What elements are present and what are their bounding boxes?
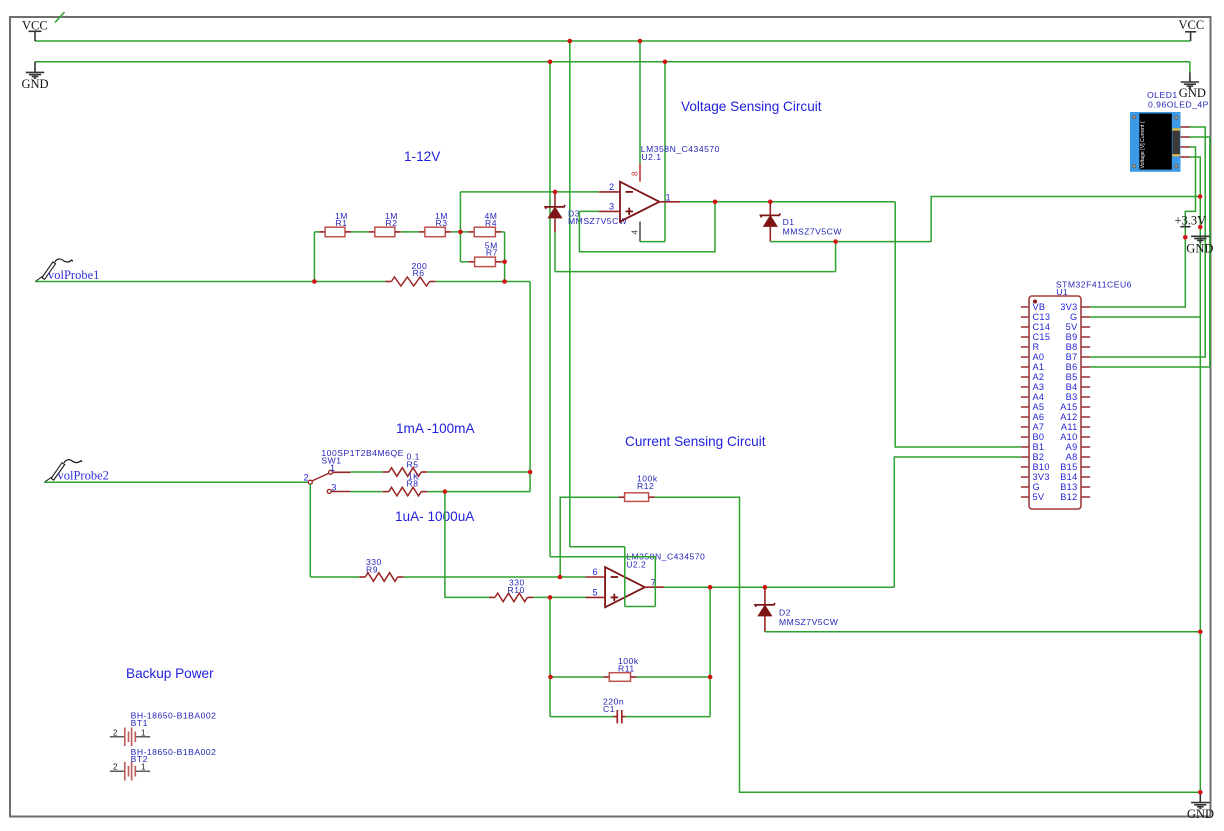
pin 2 stub U2.1 <box>599 191 620 193</box>
svg-text:3V3: 3V3 <box>1060 302 1077 312</box>
wire GND top rail <box>35 61 1190 63</box>
wire GND drop to pin4 net <box>664 62 666 242</box>
node D3 cathode junction <box>553 190 558 195</box>
svg-text:A2: A2 <box>1033 372 1045 382</box>
svg-text:B13: B13 <box>1060 482 1077 492</box>
svg-text:OLED1: OLED1 <box>1147 90 1178 100</box>
pin 3 stub U2.1 <box>599 210 620 212</box>
svg-text:B10: B10 <box>1033 462 1050 472</box>
wire R2-R3 <box>401 231 419 233</box>
pin 8 stub U2.1 <box>639 164 641 182</box>
svg-text:B12: B12 <box>1060 492 1077 502</box>
svg-text:BT1: BT1 <box>131 718 148 728</box>
svg-text:B2: B2 <box>1033 452 1045 462</box>
wire D3 anode drop <box>554 232 556 272</box>
svg-text:B8: B8 <box>1066 342 1078 352</box>
svg-text:3V3: 3V3 <box>1033 472 1050 482</box>
svg-text:1: 1 <box>141 728 146 737</box>
wire OLED pin1 to B7 <box>1090 127 1205 357</box>
wire C1 left lead <box>550 716 615 718</box>
wire C1 right lead <box>626 716 710 718</box>
wire volProbe1 row <box>35 281 314 283</box>
ground GND mid right <box>1186 236 1213 255</box>
svg-text:A0: A0 <box>1033 352 1045 362</box>
node GND flag tap <box>1198 225 1203 230</box>
node R3-R4 junction <box>458 230 463 235</box>
svg-text:R2: R2 <box>386 218 398 228</box>
wire R1 left lead <box>314 231 319 233</box>
resistor R2 1M <box>369 211 401 237</box>
capacitor C1 220n <box>603 697 626 724</box>
svg-text:2: 2 <box>113 763 118 772</box>
svg-text:R7: R7 <box>486 247 498 257</box>
wire pin3 lead <box>579 210 599 212</box>
node R11 left junction <box>548 675 553 680</box>
resistor R6 200 <box>314 261 435 286</box>
resistor R5 0.1 <box>383 452 427 477</box>
pin 1 stub U2.1 output <box>659 201 680 203</box>
svg-text:A6: A6 <box>1033 412 1045 422</box>
wire pin5 node drop <box>549 597 551 716</box>
svg-text:VCC: VCC <box>1179 18 1205 32</box>
wire D1 anode run <box>770 241 931 243</box>
node 3V3 flag tap <box>1183 235 1188 240</box>
node pin5 R10 junction <box>548 595 553 600</box>
wire R5 right to node <box>427 471 530 473</box>
svg-text:GND: GND <box>22 77 49 91</box>
wire D3 anode run right <box>555 271 836 273</box>
wire R8 tap drop to R10 <box>445 492 489 598</box>
resistor R4 4M <box>468 211 501 237</box>
svg-text:A8: A8 <box>1066 452 1078 462</box>
wire volProbe1 drop <box>529 282 531 492</box>
svg-text:5V: 5V <box>1033 492 1045 502</box>
wire R8 right to node <box>427 491 530 493</box>
node R11 right junction <box>708 675 713 680</box>
node R8 R10 tap <box>443 489 448 494</box>
wire R12 left lead <box>560 497 618 577</box>
svg-text:G: G <box>1070 312 1077 322</box>
node VCC pin8 tap <box>638 39 643 44</box>
svg-text:R1: R1 <box>336 218 348 228</box>
svg-text:R5: R5 <box>407 459 419 469</box>
ground GND bottom right <box>1187 792 1214 821</box>
svg-text:B6: B6 <box>1066 362 1078 372</box>
display OLED1 0.96OLED_4P <box>1130 90 1209 172</box>
svg-text:1: 1 <box>666 192 671 202</box>
diode D1 MMSZ7V5CW zener <box>761 202 843 242</box>
node R5 right junction <box>528 470 533 475</box>
wire node A to pin2 run <box>460 191 599 193</box>
svg-text:B14: B14 <box>1060 472 1077 482</box>
battery BT2 BH-18650-B1BA002 <box>110 747 217 781</box>
svg-text:A4: A4 <box>1033 392 1045 402</box>
svg-text:1: 1 <box>330 463 335 473</box>
wire volProbe2 row <box>44 481 308 483</box>
svg-text:R8: R8 <box>407 479 419 489</box>
svg-text:GND: GND <box>1179 86 1206 100</box>
svg-text:B9: B9 <box>1066 332 1078 342</box>
svg-text:R4: R4 <box>485 218 497 228</box>
svg-text:3: 3 <box>609 202 614 212</box>
node GND drop tap <box>548 60 553 65</box>
resistor R11 100k <box>603 656 639 681</box>
svg-text:D1: D1 <box>783 217 795 227</box>
svg-text:Voltage [V] Current (: Voltage [V] Current ( <box>1140 121 1146 168</box>
svg-text:C14: C14 <box>1033 322 1051 332</box>
svg-text:R12: R12 <box>637 481 654 491</box>
svg-text:U2.2: U2.2 <box>626 560 646 570</box>
wire volProbe1 row right of R6 <box>436 281 530 283</box>
svg-text:MMSZ7V5CW: MMSZ7V5CW <box>783 227 843 237</box>
resistor R3 1M <box>419 211 451 237</box>
node U2.1 feedback tap <box>713 200 718 205</box>
display OLED1 pin stubs <box>1181 127 1190 157</box>
wire R4-R7 right drop <box>504 232 506 282</box>
wire SW1 pin1 to R5 <box>351 471 383 473</box>
svg-text:1: 1 <box>141 763 146 772</box>
wire R7 left lead <box>460 261 468 263</box>
svg-text:1uA- 1000uA: 1uA- 1000uA <box>395 509 475 524</box>
wire R11 right lead <box>637 676 711 678</box>
battery BT1 BH-18650-B1BA002 <box>110 711 217 747</box>
node D1 cathode junction <box>768 200 773 205</box>
svg-text:A10: A10 <box>1060 432 1077 442</box>
wire rail loop V2 <box>654 557 656 607</box>
svg-text:R10: R10 <box>508 585 525 595</box>
svg-text:B0: B0 <box>1033 432 1045 442</box>
node pin6 R12 junction <box>558 575 563 580</box>
mcu U1 STM32F411CEU6 <box>1029 279 1132 509</box>
wire pin4 to GND net <box>640 241 665 243</box>
wire SW1 pin3 to R8 <box>351 491 383 493</box>
svg-text:R: R <box>1033 342 1040 352</box>
wire common to R9 <box>310 576 359 578</box>
resistor R9 330 <box>359 557 403 581</box>
svg-text:A3: A3 <box>1033 382 1045 392</box>
wire rail loop V1 <box>624 547 626 607</box>
resistor R10 330 <box>489 578 533 602</box>
svg-text:C1: C1 <box>603 704 615 714</box>
node D2 cathode junction <box>763 585 768 590</box>
power flag VCC left <box>22 19 48 42</box>
mcu U1 left pin names <box>1033 302 1051 502</box>
svg-text:VB: VB <box>1033 302 1046 312</box>
svg-text:U2.1: U2.1 <box>641 152 661 162</box>
wire U2.2 output run <box>664 586 894 588</box>
wire OLED pin2 to B6 <box>1090 137 1210 367</box>
wire R3-R4 node <box>451 231 468 233</box>
svg-text:MMSZ7V5CW: MMSZ7V5CW <box>568 216 628 226</box>
ground GND left <box>22 62 49 91</box>
svg-text:8: 8 <box>631 171 640 176</box>
svg-text:5: 5 <box>593 588 598 598</box>
wire VCC drop to pin8 net <box>639 41 641 164</box>
wire feedback drop U2.1 <box>579 202 715 252</box>
svg-text:0.96OLED_4P: 0.96OLED_4P <box>1148 100 1209 110</box>
resistor R12 100k <box>619 474 658 502</box>
wire green slash mark <box>55 12 65 23</box>
svg-text:G: G <box>1033 482 1040 492</box>
node volProbe1 R4 junction <box>502 279 507 284</box>
wire D1 anode riser <box>931 197 1200 242</box>
svg-text:C13: C13 <box>1033 312 1051 322</box>
node GND pin4 tap <box>663 60 668 65</box>
wire U2.1 output run <box>680 201 895 203</box>
svg-text:A1: A1 <box>1033 362 1045 372</box>
svg-text:A11: A11 <box>1061 422 1078 432</box>
wire R12 right to GND run <box>655 497 1201 792</box>
svg-text:B3: B3 <box>1066 392 1078 402</box>
wire rail loop H1 <box>570 546 625 548</box>
node volProbe1 R1 junction <box>312 279 317 284</box>
wire output drop to B1 <box>895 202 1021 447</box>
ground GND right top <box>1179 62 1206 100</box>
node R7 right junction <box>502 260 507 265</box>
svg-text:A5: A5 <box>1033 402 1045 412</box>
svg-text:1-12V: 1-12V <box>404 149 440 164</box>
svg-text:A15: A15 <box>1060 402 1077 412</box>
wire G pin run <box>1090 316 1200 318</box>
svg-text:Voltage Sensing Circuit: Voltage Sensing Circuit <box>681 99 822 114</box>
wire D2 anode run to GND <box>765 631 1200 633</box>
pin 6 stub U2.2 <box>586 576 606 578</box>
svg-text:C15: C15 <box>1033 332 1051 342</box>
pin 4 stub U2.1 <box>639 222 641 242</box>
svg-text:VCC: VCC <box>22 19 48 33</box>
wire R11 left lead <box>551 676 604 678</box>
mcu U1 left pin stubs <box>1021 307 1029 497</box>
wire node A drop to R7 <box>459 192 461 262</box>
resistor R7 5M <box>469 241 502 267</box>
node D2 anode GND tap <box>1198 630 1203 635</box>
svg-text:Backup Power: Backup Power <box>126 666 214 681</box>
wire rail loop H2 <box>550 556 655 558</box>
diode D2 MMSZ7V5CW zener <box>755 587 839 632</box>
svg-text:A9: A9 <box>1066 442 1078 452</box>
wire VCC top rail <box>35 40 1191 42</box>
resistor R8 1K <box>383 472 427 496</box>
svg-text:R6: R6 <box>413 268 425 278</box>
svg-text:B5: B5 <box>1066 372 1078 382</box>
svg-text:GND: GND <box>1186 242 1213 256</box>
svg-text:2: 2 <box>609 182 614 192</box>
node D1-D3 anode junction <box>833 239 838 244</box>
svg-text:2: 2 <box>113 728 118 737</box>
wire SW1 common drop <box>309 484 311 577</box>
svg-text:A7: A7 <box>1033 422 1045 432</box>
wire R4 right to drop <box>501 231 504 233</box>
wire R10 right to pin5 node <box>533 596 585 598</box>
power flag VCC right <box>1179 18 1205 41</box>
svg-text:volProbe1: volProbe1 <box>48 268 99 282</box>
svg-text:6: 6 <box>593 567 598 577</box>
svg-text:B4: B4 <box>1066 382 1078 392</box>
pin 7 stub U2.2 output <box>645 586 664 588</box>
svg-text:MMSZ7V5CW: MMSZ7V5CW <box>779 617 839 627</box>
wire rail loop H3 <box>625 606 656 608</box>
wire VCC drop long left <box>569 41 571 547</box>
switch SW1 100SP1T2B4M6QE <box>304 448 404 493</box>
svg-text:Current Sensing Circuit: Current Sensing Circuit <box>625 434 766 449</box>
pin 5 stub U2.2 <box>586 596 606 598</box>
power flag +3.3V <box>1175 214 1207 228</box>
wire R1-R2 <box>351 231 369 233</box>
wire R9 right to pin6 node <box>404 576 586 578</box>
svg-text:4: 4 <box>631 230 640 235</box>
svg-text:B15: B15 <box>1060 462 1077 472</box>
wire D3 riser to D1 anode net <box>835 242 837 272</box>
op-amp U2.1 LM358N_C434570 <box>620 144 720 222</box>
svg-text:1mA -100mA: 1mA -100mA <box>396 421 476 436</box>
op-amp U2.2 LM358N_C434570 <box>605 552 705 608</box>
mcu U1 right pin stubs <box>1081 307 1090 497</box>
wire output node drop <box>709 587 711 716</box>
diode D3 MMSZ7V5CW zener <box>545 192 628 232</box>
node bottom GND junction <box>1198 790 1203 795</box>
svg-text:R9: R9 <box>366 565 378 575</box>
svg-text:5V: 5V <box>1066 322 1078 332</box>
svg-text:GND: GND <box>1187 807 1214 821</box>
svg-text:B1: B1 <box>1033 442 1045 452</box>
wire R1 left drop <box>313 232 315 282</box>
svg-text:volProbe2: volProbe2 <box>58 468 109 482</box>
svg-text:R11: R11 <box>618 664 635 674</box>
mcu U1 right pin names <box>1060 302 1078 502</box>
svg-text:2: 2 <box>304 473 309 483</box>
svg-text:R3: R3 <box>436 218 448 228</box>
svg-text:B7: B7 <box>1066 352 1078 362</box>
resistor R1 1M <box>320 211 352 237</box>
node VCC drop tap <box>568 39 573 44</box>
probe volProbe1 <box>35 259 99 282</box>
probe volProbe2 <box>44 460 108 483</box>
svg-text:A12: A12 <box>1060 412 1077 422</box>
wire R7 right lead <box>501 261 504 263</box>
wire GND drop long left <box>549 62 551 557</box>
node GND net top right <box>1198 194 1203 199</box>
wire output riser to B2 <box>894 457 1021 587</box>
node U2.2 output tap <box>708 585 713 590</box>
wire OLED pin3 to 3V3 <box>1090 147 1195 307</box>
wire OLED pin4 to GND net <box>1190 157 1201 792</box>
